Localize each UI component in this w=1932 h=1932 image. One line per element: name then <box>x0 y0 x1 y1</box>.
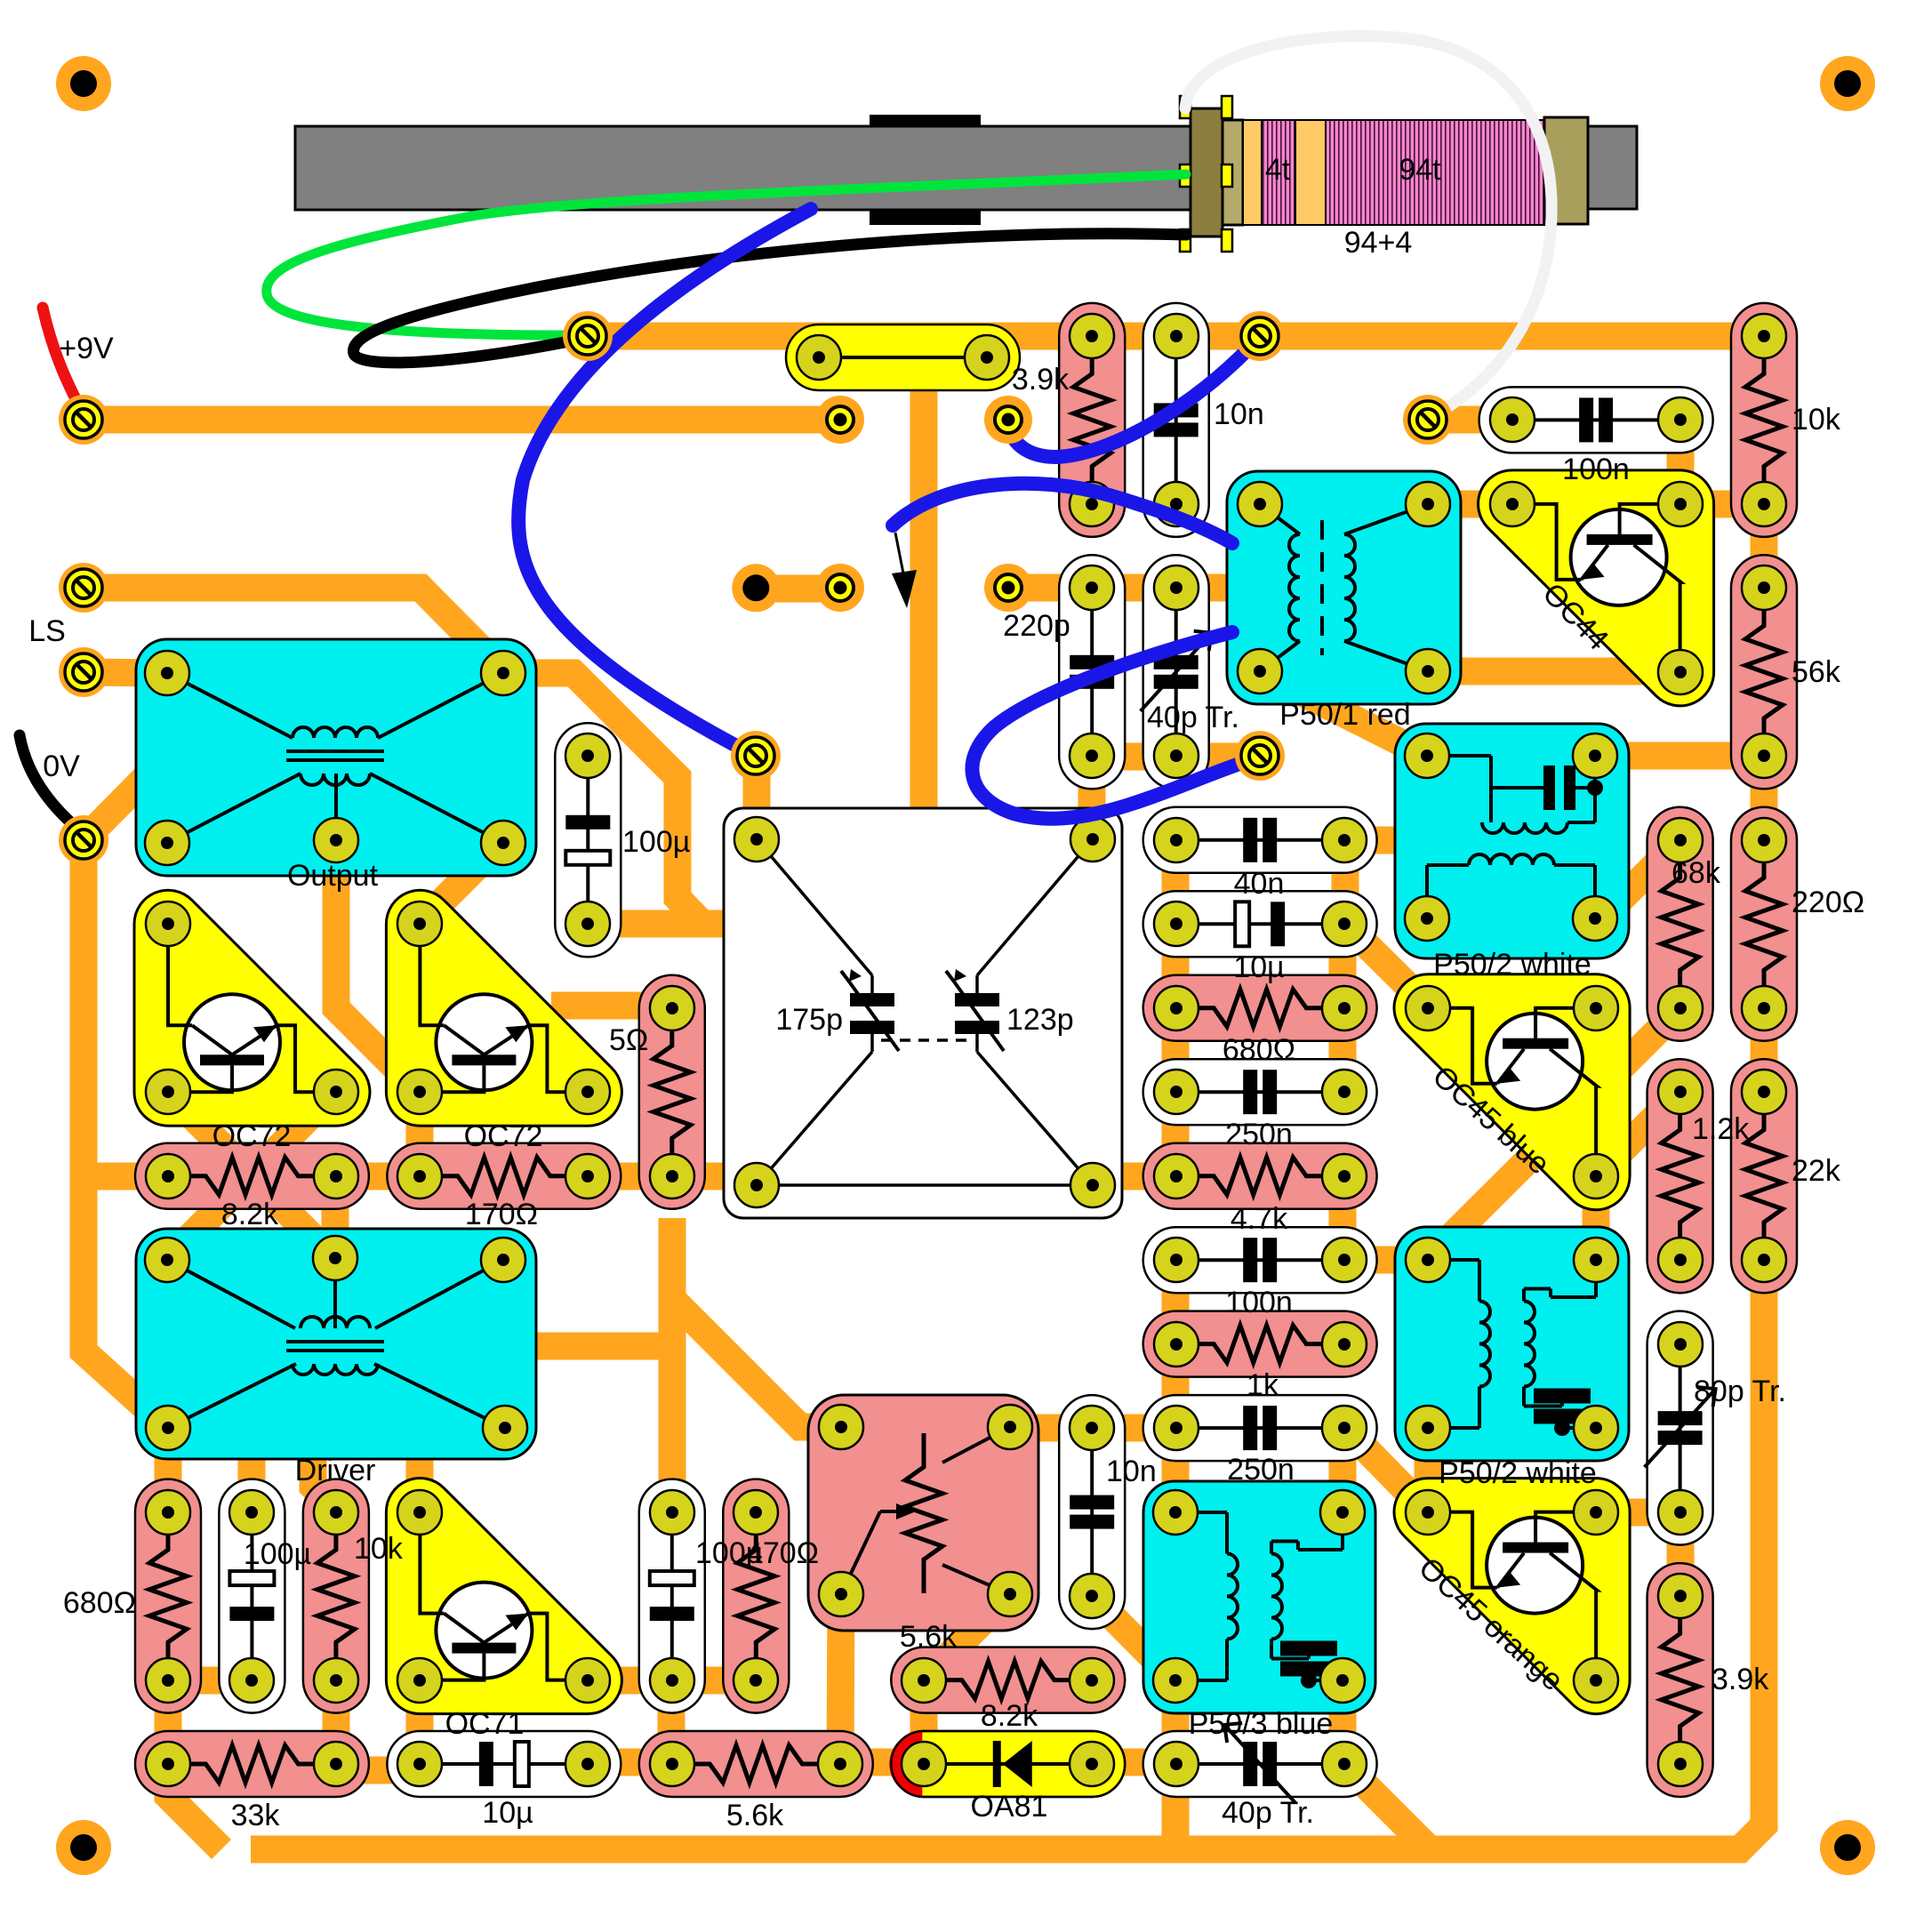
resistor 680R <box>1143 975 1377 1041</box>
svg-text:680Ω: 680Ω <box>1223 1033 1295 1067</box>
ferrite rod <box>295 126 1190 210</box>
wire trace 100u to box <box>588 910 725 938</box>
wire trace P50-3 BR drop <box>1329 1680 1357 1762</box>
wire trace OC71 BL drop <box>406 1680 434 1762</box>
transformer P50/1 red <box>1227 471 1461 704</box>
wire trace to 220p/40p <box>1008 574 1245 602</box>
capacitor 250n2 <box>1143 1395 1377 1461</box>
svg-text:33k: 33k <box>231 1799 281 1832</box>
svg-text:OC72: OC72 <box>464 1119 543 1153</box>
wire trace stack R 12-13 <box>1329 1006 1357 1092</box>
wire trace LS2 to output <box>84 672 167 673</box>
wire trace P50-2 to 56k <box>1596 742 1764 770</box>
transformer P50/2 white 1 <box>1395 724 1629 958</box>
coil band 1 <box>1243 120 1262 225</box>
svg-text:+9V: +9V <box>59 332 114 365</box>
wire blue 2 <box>1008 338 1259 457</box>
svg-text:8.2k: 8.2k <box>981 1699 1038 1733</box>
wire trace outBR to OC72-2 <box>420 840 503 924</box>
wire trace 220R to 22k <box>1751 1008 1778 1092</box>
terminal LS 2 <box>59 647 108 697</box>
svg-text:10µ: 10µ <box>482 1796 533 1830</box>
wire trace OC45b emitter diag <box>1596 1092 1680 1176</box>
transistor OC71 <box>386 1479 621 1714</box>
wire trace 8.2k-170 <box>335 1163 420 1190</box>
resistor 170R <box>387 1143 621 1209</box>
wire trace stack L 16-17 <box>1162 1344 1190 1428</box>
svg-text:0V: 0V <box>43 750 80 783</box>
wire trace 8.2k2 to pot diag <box>924 1596 1008 1680</box>
via pad B <box>984 396 1032 444</box>
wire link body <box>786 325 1020 390</box>
wire trace 100u3 drop <box>658 1680 685 1762</box>
node dogbone left <box>732 564 780 612</box>
wire trace 100u3-470 <box>671 1667 755 1695</box>
wire trace stack L 11-12 <box>1162 924 1190 1006</box>
resistor 8.2k2 <box>891 1647 1125 1713</box>
wire trace 40n to P50-2 <box>1345 827 1414 854</box>
wire trace OC72-1 X2 <box>167 1091 335 1260</box>
coil band 2 <box>1295 120 1326 225</box>
svg-text:OA81: OA81 <box>971 1790 1048 1824</box>
arrow aerial <box>895 533 904 578</box>
capacitor 40n <box>1143 807 1377 873</box>
terminal P50 in <box>1235 731 1285 781</box>
wire trace pot row17 <box>1010 1415 1175 1442</box>
transformer P50/3 blue <box>1143 1481 1375 1713</box>
svg-text:3.9k: 3.9k <box>1012 363 1070 397</box>
trimmer 40p Tr.2 <box>1143 1731 1377 1797</box>
svg-text:P50/3 blue: P50/3 blue <box>1189 1707 1334 1741</box>
wire trace driver out <box>529 1333 672 1360</box>
wire trace 10k to 56k <box>1751 504 1778 587</box>
svg-text:250n: 250n <box>1225 1118 1293 1151</box>
resistor 22k <box>1731 1059 1797 1293</box>
wire trace screw9-9 to tuning box <box>743 757 771 811</box>
transistor OC45 orange <box>1394 1479 1630 1714</box>
wire trace stack L 17-18 <box>1162 1428 1190 1512</box>
svg-text:10k: 10k <box>1792 403 1841 437</box>
capacitor 250n <box>1143 1059 1377 1125</box>
transistor OC72 no1 <box>134 890 370 1126</box>
resistor 470R <box>723 1479 789 1713</box>
wire trace 80p to 3.9k2 <box>1667 1512 1695 1596</box>
wire trace outTR path <box>503 673 725 924</box>
svg-text:100µ: 100µ <box>244 1537 311 1571</box>
wire link pads <box>797 335 841 380</box>
wire trace 100n to OC44 <box>1667 420 1695 504</box>
svg-text:100µ: 100µ <box>622 825 690 859</box>
wire trace OC71 up <box>406 1459 434 1512</box>
potentiometer 5.6k <box>808 1395 1038 1631</box>
wire trace box drop col8 <box>659 1218 686 1512</box>
trimmer 80p Tr. <box>1647 1311 1713 1545</box>
wire blue 1 <box>518 209 811 757</box>
wire trace 250n2 to P50-3 <box>1329 1428 1357 1512</box>
wire trace col11 drop <box>910 356 938 808</box>
svg-text:8.2k: 8.2k <box>221 1198 279 1231</box>
svg-text:80p Tr.: 80p Tr. <box>1694 1375 1786 1408</box>
resistor 5.6k2 <box>639 1731 873 1797</box>
wire trace row14 mid <box>588 1163 757 1190</box>
svg-text:94+4: 94+4 <box>1344 226 1413 260</box>
svg-text:68k: 68k <box>1671 856 1721 890</box>
wire trace P50-3 BL drop <box>1162 1680 1190 1762</box>
wire blue 4 <box>972 632 1258 819</box>
wire trace LS to output <box>84 588 503 671</box>
svg-text:100n: 100n <box>1562 453 1630 486</box>
transformer Driver <box>136 1229 536 1459</box>
svg-text:56k: 56k <box>1792 655 1841 689</box>
wire trace stack L 15-16 <box>1162 1260 1190 1344</box>
wire trace stack L 13-14 <box>1162 1092 1190 1176</box>
wire trace 100n2 to P50-2b <box>1343 1247 1428 1274</box>
corner pad bottom-right <box>1820 1820 1875 1875</box>
wire black antenna <box>354 234 1186 363</box>
corner pad bottom-left <box>56 1820 111 1875</box>
wire trace P50-2b TL to 68k <box>1428 1008 1680 1260</box>
wire trace 250n2 to OC45o <box>1345 1428 1428 1512</box>
svg-text:680Ω: 680Ω <box>63 1586 136 1620</box>
via pad D <box>816 564 864 612</box>
coil former left <box>1190 108 1223 236</box>
tuning capacitor block <box>724 808 1122 1218</box>
svg-text:40p Tr.: 40p Tr. <box>1147 701 1239 734</box>
coil former right <box>1544 117 1588 224</box>
capacitor 10u <box>1143 891 1377 957</box>
resistor 1.2k <box>1647 1059 1713 1293</box>
svg-text:40p Tr.: 40p Tr. <box>1222 1796 1314 1830</box>
wire trace 220p drop <box>1078 757 1106 818</box>
svg-text:Output: Output <box>287 859 379 893</box>
wire blue 3 <box>893 484 1232 543</box>
terminal 0V <box>59 815 108 865</box>
wire trace +9V rail <box>84 406 840 434</box>
resistor 4.7k <box>1143 1143 1377 1209</box>
wire trace 680 to 33k <box>155 1680 182 1770</box>
transistor OC45 blue <box>1394 974 1630 1210</box>
wire trace OC72-1 X1 <box>167 1091 335 1260</box>
wire trace 80p to OC45o <box>1596 1499 1680 1527</box>
coil former pins <box>1180 96 1190 118</box>
wire trace 8.2k feed <box>84 1163 167 1190</box>
transistor OC72 no2 <box>386 890 621 1126</box>
svg-text:P50/2 white: P50/2 white <box>1433 948 1591 982</box>
wire trace 170 left drop <box>406 1092 434 1176</box>
wire trace stack L 10-11 <box>1162 840 1190 924</box>
wire trace outBC drop <box>336 840 420 1092</box>
svg-text:10µ: 10µ <box>1233 950 1284 984</box>
corner pad top-left <box>56 56 111 111</box>
wire trace 0V diag <box>84 776 147 840</box>
diode OA81 <box>891 1731 1125 1797</box>
terminal +9V <box>59 395 108 445</box>
wire green antenna <box>267 174 1186 335</box>
capacitor 100u2 <box>219 1479 285 1713</box>
wire trace right rail <box>251 1260 1764 1849</box>
capacitor 100n <box>1479 387 1713 453</box>
wire trace 100u2 up <box>238 1459 266 1512</box>
wire trace dogbone <box>755 575 840 603</box>
svg-text:470Ω: 470Ω <box>746 1536 819 1570</box>
svg-text:5Ω: 5Ω <box>609 1023 648 1057</box>
wire trace stack L 12-13 <box>1162 1006 1190 1092</box>
svg-text:22k: 22k <box>1792 1154 1841 1188</box>
wire trace OC44 to 10k <box>1689 491 1764 518</box>
corner pad top-right <box>1820 56 1875 111</box>
resistor 10k <box>1731 303 1797 537</box>
wire trace box BR to 4.7k <box>1092 1163 1175 1190</box>
capacitor 10n2 <box>1059 1395 1125 1629</box>
terminal LS 1 <box>59 563 108 613</box>
resistor 3.9k2 <box>1647 1563 1713 1797</box>
svg-text:94t: 94t <box>1399 153 1441 187</box>
svg-text:P50/1 red: P50/1 red <box>1279 698 1410 732</box>
capacitor 10n <box>1143 303 1209 537</box>
transformer Output <box>136 639 536 876</box>
wire trace P50-2b BL drop <box>1415 1428 1442 1512</box>
wire trace P50-1 to OC44 <box>1428 491 1522 518</box>
resistor 10k2 <box>303 1479 369 1713</box>
wire trace OC45b to P50-2b <box>1583 1176 1610 1260</box>
antenna clip <box>870 115 981 225</box>
wire white antenna <box>1185 36 1551 418</box>
wire trace 68k diag <box>1596 840 1680 924</box>
wire trace driver BL drop <box>155 1428 182 1512</box>
svg-text:OC72: OC72 <box>212 1119 292 1153</box>
svg-text:P50/2 white: P50/2 white <box>1439 1456 1597 1490</box>
coil 4t winding <box>1262 120 1295 225</box>
terminal white wire <box>1403 395 1453 445</box>
transformer P50/2 white 2 <box>1395 1227 1629 1461</box>
wire trace pot wiper drop <box>840 1594 841 1762</box>
wire trace row8 OC44 emitter <box>1260 658 1680 685</box>
via pad A <box>816 396 864 444</box>
wire trace 680-100u <box>168 1667 252 1695</box>
wire trace 33k-10u <box>336 1757 420 1784</box>
wire trace 8.2k2-OA81 <box>910 1680 938 1762</box>
svg-text:Driver: Driver <box>295 1454 376 1487</box>
wire trace 40n-10u right <box>1332 840 1359 924</box>
coil former left2 <box>1223 120 1243 225</box>
svg-text:1k: 1k <box>1247 1368 1279 1402</box>
wire trace 5.6k-OA81 <box>840 1749 924 1776</box>
capacitor 220p <box>1059 555 1125 789</box>
svg-text:5.6k: 5.6k <box>900 1620 958 1654</box>
terminal aerial top <box>563 311 613 361</box>
resistor 1k <box>1143 1311 1377 1377</box>
transistor OC44 <box>1479 470 1714 706</box>
svg-text:10n: 10n <box>1214 397 1264 431</box>
svg-text:175p: 175p <box>775 1003 843 1037</box>
resistor 680R2 <box>135 1479 201 1713</box>
resistor 33k <box>135 1731 369 1797</box>
svg-text:4t: 4t <box>1265 153 1291 187</box>
ferrite rod right stub <box>1588 126 1637 209</box>
svg-text:220Ω: 220Ω <box>1792 886 1864 919</box>
capacitor 100u <box>555 723 621 957</box>
resistor 56k <box>1731 555 1797 789</box>
resistor 8.2k <box>135 1143 369 1209</box>
wire trace 10k2 down <box>323 1680 350 1770</box>
coil 94t winding <box>1326 120 1544 225</box>
wire trace col8 to pot <box>672 1299 841 1427</box>
wire trace stack R 11-12 <box>1329 924 1357 1006</box>
terminal mid <box>731 731 781 781</box>
wire trace 10u2-5.6k <box>588 1749 671 1776</box>
svg-text:10k: 10k <box>354 1532 404 1566</box>
svg-text:40n: 40n <box>1234 867 1285 901</box>
wire trace 40p2 to rail <box>1162 1762 1190 1849</box>
svg-text:1.2k: 1.2k <box>1692 1112 1750 1146</box>
resistor 3.9k body <box>1059 303 1125 537</box>
capacitor 100u3 <box>639 1479 705 1713</box>
wire trace stack R 14-15 <box>1329 1176 1357 1260</box>
wire trace screw17-5 to 100n <box>1428 406 1512 434</box>
trimmer 40p Tr. <box>1143 555 1209 789</box>
svg-text:170Ω: 170Ω <box>465 1198 538 1231</box>
wire trace 10n2 to P50-3 diag <box>1092 1596 1175 1680</box>
wire black 0V <box>20 735 82 832</box>
wire trace 8.2k drop <box>322 1178 349 1260</box>
capacitor 10u2 <box>387 1731 621 1797</box>
wire trace rail to 33k <box>168 1770 221 1849</box>
wire trace left rail <box>84 840 168 1428</box>
wire trace 5ohm top feed <box>551 992 671 1020</box>
svg-text:OC71: OC71 <box>445 1707 525 1741</box>
wire trace 10u to OC45b <box>1345 924 1428 1006</box>
resistor 68k <box>1647 807 1713 1041</box>
wire trace P50-1 to P50-2 <box>1260 671 1427 756</box>
wire trace 10k2 up <box>313 1459 336 1510</box>
svg-text:LS: LS <box>28 614 66 648</box>
svg-text:220p: 220p <box>1003 609 1070 643</box>
via pad C <box>984 564 1032 612</box>
svg-text:100n: 100n <box>1225 1286 1293 1319</box>
resistor 5R <box>639 975 705 1209</box>
wire trace OA81-40p2 <box>1092 1749 1175 1776</box>
svg-text:5.6k: 5.6k <box>726 1799 784 1832</box>
wire red +9V <box>43 308 82 411</box>
svg-text:123p: 123p <box>1006 1003 1074 1037</box>
wire trace 56k to 220R <box>1751 756 1778 840</box>
wire trace 40p to screw <box>1092 743 1260 771</box>
wire trace OC71-100u3 <box>588 1667 671 1695</box>
svg-text:3.9k: 3.9k <box>1712 1663 1769 1696</box>
svg-text:4.7k: 4.7k <box>1231 1202 1288 1236</box>
terminal top right <box>1235 311 1285 361</box>
svg-text:10n: 10n <box>1106 1455 1157 1488</box>
wire trace top rail <box>588 323 1764 350</box>
svg-text:250n: 250n <box>1227 1453 1295 1487</box>
wire trace 40p2 diag rail <box>1343 1762 1430 1849</box>
capacitor 100n2 <box>1143 1227 1377 1293</box>
resistor 220R <box>1731 807 1797 1041</box>
